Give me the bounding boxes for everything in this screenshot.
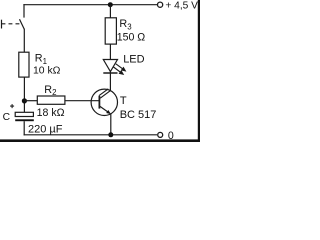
resistor R3	[105, 18, 116, 44]
transistor collector line 2	[99, 89, 108, 96]
wire rail to R3	[109, 5, 111, 18]
junction dot top rail	[108, 2, 113, 7]
resistor R1	[19, 52, 29, 77]
capacitor C plus sign	[10, 104, 14, 108]
switch S blade	[20, 19, 25, 29]
capacitor C bottom plate	[15, 119, 34, 121]
transistor base bar	[98, 96, 100, 109]
svg-text:18 kΩ: 18 kΩ	[37, 107, 65, 119]
LED light arrow 1	[116, 64, 126, 71]
junction dot base node	[22, 98, 27, 103]
wire R3 to LED	[109, 44, 111, 73]
junction dot ground rail	[108, 132, 113, 137]
svg-text:BC 517: BC 517	[120, 109, 157, 121]
border right	[198, 0, 200, 142]
border bottom	[0, 139, 200, 142]
svg-text:C: C	[3, 112, 11, 123]
LED D1 triangle	[103, 60, 117, 72]
wire ground rail	[24, 134, 157, 136]
svg-text:10 kΩ: 10 kΩ	[33, 65, 61, 76]
wire R1 to capacitor	[23, 77, 25, 112]
capacitor C top plate	[15, 112, 33, 116]
svg-text:T: T	[120, 95, 127, 107]
LED cathode bar	[103, 72, 117, 74]
switch actuator dashed link	[2, 23, 20, 25]
terminal 0V	[158, 132, 163, 137]
transistor T circle	[91, 89, 117, 115]
wire emitter to ground rail	[110, 114, 112, 135]
svg-text:150 Ω: 150 Ω	[117, 32, 146, 44]
wire LED to collector	[109, 73, 111, 91]
wire top rail	[23, 4, 157, 6]
transistor emitter line	[100, 106, 109, 112]
svg-text:220 µF: 220 µF	[28, 124, 63, 136]
wire node to R2	[24, 100, 37, 102]
wire switch top stub	[23, 4, 25, 18]
LED light arrow 2	[114, 67, 124, 74]
transistor collector line 1	[100, 90, 111, 98]
switch actuator cross bar	[1, 20, 3, 29]
svg-text:LED: LED	[123, 54, 144, 66]
svg-text:+ 4,5 V: + 4,5 V	[165, 1, 198, 12]
transistor emitter arrow	[106, 110, 111, 114]
wire switch to R1	[23, 29, 25, 53]
wire R2 to base	[65, 100, 100, 102]
wire capacitor to ground rail	[23, 121, 25, 135]
resistor R2	[37, 96, 65, 104]
terminal +4.5V	[158, 2, 163, 7]
